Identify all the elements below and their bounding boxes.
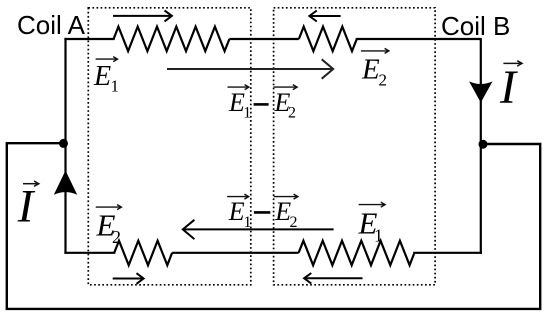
label I left with vec arrow — [17, 181, 39, 233]
coil B bottom winding (resistor zigzag) — [299, 241, 415, 266]
coil B top winding (resistor zigzag) — [299, 27, 357, 51]
wire left vertical (Coil A branch) — [64, 39, 66, 253]
small arrow below bottom-left resistor — [113, 273, 144, 284]
label E1 bottom-right with vec arrow — [358, 202, 386, 245]
coil A dotted box — [88, 8, 251, 285]
current down arrowhead (right wire) — [469, 81, 492, 102]
node left — [59, 139, 68, 148]
small arrow below bottom-right resistor — [304, 273, 362, 284]
long arrow E1-E2 (top, rightward) — [167, 59, 333, 78]
label E1 top-left with vec arrow — [93, 57, 119, 96]
svg-text:2: 2 — [379, 71, 388, 90]
svg-text:E: E — [228, 197, 245, 226]
long arrow E1-E2 (bottom, leftward) — [183, 220, 334, 239]
node right — [479, 140, 488, 149]
svg-text:I: I — [499, 61, 518, 114]
wire outer loop (external circuit from node A to node B) — [7, 143, 540, 309]
coil B dotted box — [274, 8, 436, 285]
svg-text:E: E — [93, 61, 111, 92]
wire between top windings — [229, 38, 299, 40]
label E1-E2 bottom middle — [227, 194, 298, 231]
svg-text:2: 2 — [112, 227, 121, 247]
svg-text:E: E — [361, 54, 380, 86]
label E2 bottom-left with vec arrow — [96, 205, 122, 247]
svg-text:1: 1 — [374, 225, 383, 245]
small arrow above top-left resistor — [113, 10, 172, 21]
label I right with vec arrow — [499, 61, 522, 114]
svg-text:I: I — [17, 181, 36, 233]
small arrow above top-right resistor — [309, 11, 340, 22]
wire top-left to coil A winding — [66, 38, 114, 40]
wire bottom-left to left vertical — [66, 252, 115, 254]
svg-text:Coil A: Coil A — [17, 10, 86, 40]
svg-text:1: 1 — [111, 77, 120, 96]
svg-text:2: 2 — [288, 105, 296, 122]
current up arrowhead (left wire) — [54, 171, 77, 195]
label E2 top-right with vec arrow — [361, 48, 389, 89]
coil A top winding (resistor zigzag) — [114, 27, 230, 51]
coil A bottom winding (resistor zigzag) — [114, 241, 172, 266]
svg-text:2: 2 — [290, 214, 298, 231]
svg-text:1: 1 — [243, 105, 251, 122]
label E1-E2 top middle — [228, 85, 298, 122]
wire top-right corner down (Coil B branch) — [357, 39, 481, 253]
svg-text:1: 1 — [244, 214, 252, 231]
wire bottom-right to coil B winding — [414, 252, 480, 254]
wire between bottom windings — [172, 252, 299, 254]
svg-text:Coil B: Coil B — [441, 11, 510, 41]
